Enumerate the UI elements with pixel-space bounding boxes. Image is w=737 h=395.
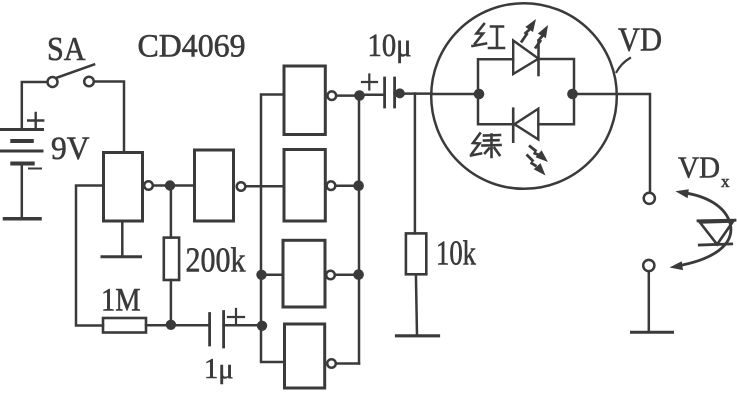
svg-text:10μ: 10μ [368, 28, 412, 64]
svg-text:x: x [721, 172, 730, 191]
svg-text:VD: VD [678, 150, 720, 185]
svg-text:VD: VD [618, 22, 662, 59]
svg-text:1M: 1M [101, 283, 141, 319]
svg-text:200k: 200k [186, 241, 246, 280]
svg-text:1μ: 1μ [204, 353, 234, 385]
svg-text:10k: 10k [436, 234, 476, 273]
svg-text:CD4069: CD4069 [138, 29, 246, 65]
svg-text:9V: 9V [51, 131, 90, 167]
svg-text:SA: SA [47, 31, 86, 68]
